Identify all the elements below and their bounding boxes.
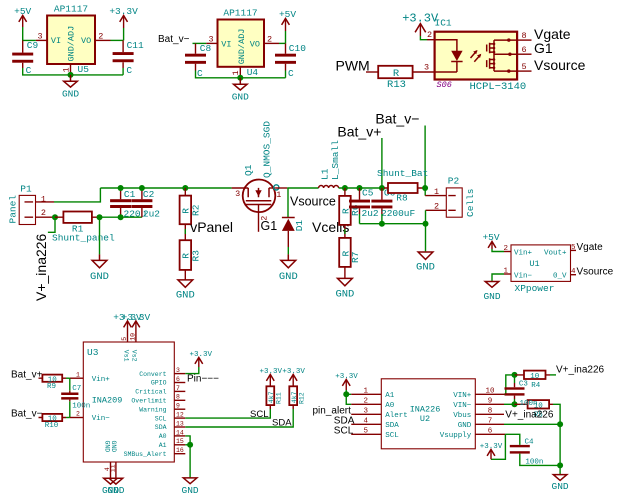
resistor R8 Shunt_Bat	[377, 168, 428, 204]
svg-text:2: 2	[76, 411, 80, 418]
pin 2 P1	[36, 208, 56, 218]
ground A0/A1	[182, 478, 199, 496]
pin 2 U1	[504, 245, 511, 253]
wire to label V+_ina226	[48, 217, 55, 232]
wire bottom rail right	[360, 223, 426, 225]
svg-text:2: 2	[98, 31, 103, 41]
optocoupler IC1 HCPL-3140	[435, 18, 518, 80]
junction R2 top	[182, 185, 188, 191]
svg-text:C8: C8	[200, 43, 212, 54]
pin 1 U5	[61, 64, 71, 75]
svg-text:VO: VO	[250, 39, 260, 49]
svg-text:V+_ina226: V+_ina226	[505, 410, 554, 421]
pin 3 IC1	[413, 62, 435, 72]
ground U5	[62, 75, 79, 100]
junction C6 top / Bat_v+	[379, 185, 385, 191]
pin 1 U1	[504, 267, 511, 275]
capacitor C5	[349, 188, 379, 224]
svg-text:GND: GND	[90, 271, 109, 283]
svg-text:5: 5	[121, 337, 128, 341]
svg-text:Vs2: Vs2	[130, 350, 137, 362]
resistor R3	[180, 240, 202, 280]
wire pin2 to +3.3V	[111, 39, 124, 41]
svg-text:GND: GND	[104, 441, 111, 453]
svg-text:2: 2	[434, 202, 439, 212]
svg-text:SDA: SDA	[272, 418, 292, 429]
svg-text:R10: R10	[45, 422, 59, 430]
pin 9 U3 (Warning)	[139, 403, 185, 414]
svg-text:Warning: Warning	[139, 406, 166, 413]
svg-text:3: 3	[364, 408, 369, 416]
wire Q1 to L1	[275, 187, 287, 189]
wire lower rail left	[100, 216, 142, 218]
svg-text:C2: C2	[143, 189, 155, 200]
svg-text:13: 13	[176, 420, 184, 427]
svg-text:Vsource: Vsource	[534, 57, 586, 73]
svg-text:3: 3	[424, 62, 429, 72]
svg-text:4: 4	[571, 268, 576, 276]
svg-text:Panel: Panel	[7, 195, 18, 224]
wire R6-R7 with Vcells tick	[344, 225, 346, 238]
pin 4 U2 (SDA)	[351, 418, 399, 430]
svg-text:SDA: SDA	[385, 422, 399, 430]
svg-text:INA226: INA226	[410, 405, 441, 415]
svg-text:1: 1	[41, 194, 46, 204]
junction R8 right	[422, 185, 428, 191]
svg-text:6: 6	[521, 45, 526, 55]
junction +3.3V A1	[343, 391, 349, 397]
svg-text:L1: L1	[319, 168, 330, 180]
svg-text:Cells: Cells	[465, 188, 476, 217]
resistor R5	[515, 400, 554, 420]
wire junction to P2 pin1	[424, 188, 426, 196]
svg-text:U1: U1	[529, 259, 539, 269]
svg-text:2: 2	[364, 398, 369, 406]
svg-text:6: 6	[176, 376, 180, 383]
pin 8 IC1	[517, 31, 531, 41]
svg-text:0_V: 0_V	[553, 272, 567, 280]
svg-text:R4: R4	[531, 382, 541, 390]
svg-text:3: 3	[176, 367, 180, 374]
pin 1 U2 (A1)	[351, 388, 395, 400]
svg-text:3: 3	[37, 31, 42, 41]
svg-text:R13: R13	[387, 79, 406, 91]
connector P2	[446, 176, 476, 218]
ground R7	[335, 278, 354, 300]
wire pin2 U4 to +5V	[279, 42, 286, 44]
svg-text:PWM: PWM	[336, 58, 370, 74]
resistor R9	[39, 375, 67, 391]
svg-text:U4: U4	[247, 67, 259, 78]
svg-text:R2: R2	[190, 204, 201, 216]
wire Bat_v+ down	[381, 138, 383, 188]
svg-text:U2: U2	[420, 414, 430, 424]
svg-text:3: 3	[208, 34, 213, 44]
pin 3 U4	[206, 34, 217, 44]
pin 8 U2 (Vbus)	[453, 408, 504, 420]
svg-text:Bat_v−: Bat_v−	[11, 409, 43, 420]
wire R5 down to gnd net	[553, 404, 560, 424]
svg-text:11: 11	[110, 464, 117, 472]
junction A1	[187, 442, 193, 448]
wire VIN- to R5	[504, 403, 515, 405]
svg-text:R3: R3	[190, 250, 201, 262]
svg-text:R12: R12	[298, 392, 305, 404]
svg-text:2: 2	[41, 208, 46, 218]
wire Vsupply to C4	[505, 434, 519, 445]
wire C8 to gnd rail	[196, 71, 286, 78]
svg-text:G1: G1	[261, 219, 278, 233]
wire top rail	[100, 187, 231, 189]
svg-text:1: 1	[364, 388, 369, 396]
svg-text:15: 15	[176, 438, 184, 445]
junction R1 left	[52, 214, 58, 220]
pin 13 U3 (SDA)	[155, 420, 186, 431]
resistor R4	[515, 371, 551, 390]
svg-text:5: 5	[571, 244, 576, 252]
svg-text:Q_NMOS_SGD: Q_NMOS_SGD	[262, 121, 273, 178]
power +3.3V (R11)	[259, 368, 282, 381]
svg-text:GND: GND	[232, 91, 249, 102]
pin 12 U3 (SCL)	[155, 412, 186, 423]
resistor R1	[52, 212, 115, 244]
svg-text:IC1: IC1	[435, 18, 452, 29]
ground R3	[176, 280, 195, 302]
connector P1	[7, 184, 35, 225]
resistor R2	[180, 188, 202, 224]
svg-text:4k7: 4k7	[268, 391, 275, 403]
svg-text:GND: GND	[483, 291, 500, 302]
svg-text:VI: VI	[51, 36, 61, 46]
junction C3/VIN-	[512, 401, 518, 407]
svg-text:Vsource: Vsource	[577, 266, 614, 277]
svg-text:C3: C3	[519, 380, 529, 388]
wire R4 to label	[550, 374, 556, 376]
svg-text:2: 2	[504, 245, 509, 253]
svg-text:XPpower: XPpower	[515, 283, 555, 294]
capacitor C7	[61, 378, 90, 417]
svg-text:+3.3V: +3.3V	[190, 351, 213, 359]
svg-text:Bat_v−: Bat_v−	[375, 111, 419, 127]
svg-text:vPanel: vPanel	[190, 219, 233, 235]
svg-text:P2: P2	[448, 176, 460, 187]
pin 2 U5	[95, 31, 111, 41]
svg-text:SCL: SCL	[155, 415, 167, 422]
power +3.3V (U3 Vs2)	[122, 312, 151, 328]
ground P2	[416, 252, 435, 274]
pin 8 U3 (Overlimit)	[131, 394, 185, 405]
svg-text:C9: C9	[27, 40, 39, 51]
wire SDA run	[185, 409, 293, 427]
svg-text:Vsource: Vsource	[290, 195, 336, 209]
svg-text:+5V: +5V	[279, 9, 296, 20]
ground D1	[279, 254, 298, 283]
output driver stage inside IC1	[487, 38, 517, 72]
svg-text:SCL: SCL	[250, 409, 268, 420]
pin 10 U3 (Vs2)	[130, 321, 138, 361]
junction C5 top	[357, 185, 363, 191]
pin 3 U5	[36, 31, 47, 41]
capacitor C1	[110, 188, 146, 220]
junction rail / P2 pin2	[423, 221, 429, 227]
pin 1 P1	[36, 194, 55, 204]
resistor R6	[339, 188, 361, 225]
svg-text:GND: GND	[107, 485, 124, 496]
svg-text:Critical: Critical	[135, 389, 166, 396]
svg-text:Vs1: Vs1	[122, 350, 129, 362]
svg-text:VO: VO	[81, 36, 91, 46]
wire D1 to ground	[287, 231, 289, 247]
svg-text:2200uF: 2200uF	[381, 208, 416, 219]
svg-text:3: 3	[235, 189, 240, 199]
svg-text:1: 1	[76, 371, 80, 378]
resistor R7	[339, 238, 361, 278]
svg-text:4: 4	[364, 418, 369, 426]
svg-text:1: 1	[231, 70, 241, 75]
svg-text:1: 1	[276, 190, 281, 200]
pullup resistor R12	[289, 375, 305, 409]
svg-text:9: 9	[176, 403, 180, 410]
svg-text:R9: R9	[47, 383, 56, 391]
ground U1	[483, 282, 500, 302]
capacitor C6	[371, 188, 415, 224]
svg-text:C7: C7	[72, 385, 81, 393]
wire A0 to gnd	[185, 436, 190, 478]
svg-text:A0: A0	[385, 402, 395, 410]
power +3.3V (Vsupply)	[480, 443, 503, 460]
capacitor C2	[131, 188, 160, 220]
svg-text:GND: GND	[110, 441, 117, 453]
pin 4 U1	[571, 268, 577, 276]
wire P1 pin1 to top rail	[54, 188, 100, 202]
svg-text:VIN−: VIN−	[453, 402, 472, 410]
resistor R10	[39, 414, 67, 430]
svg-text:5: 5	[521, 62, 526, 72]
svg-text:Overlimit: Overlimit	[131, 398, 166, 405]
svg-text:A0: A0	[159, 433, 167, 440]
ground U3 pin11	[107, 478, 124, 496]
svg-text:R7: R7	[350, 252, 361, 263]
junction C1 top	[118, 185, 124, 191]
svg-text:U3: U3	[87, 347, 99, 358]
svg-text:V+_ina226: V+_ina226	[33, 233, 49, 301]
svg-text:GND: GND	[335, 288, 354, 300]
svg-text:P1: P1	[20, 184, 32, 195]
svg-text:U5: U5	[78, 64, 90, 75]
svg-text:+5V: +5V	[482, 232, 499, 243]
ground U3 pin4	[102, 478, 119, 496]
wire VIN+ up to R4	[504, 375, 515, 394]
pin 6 IC1	[517, 45, 531, 55]
ground (panel caps)	[90, 254, 109, 283]
svg-text:Vsupply: Vsupply	[440, 432, 472, 440]
pin 5 IC1	[517, 62, 531, 72]
pin 16 U3 (SMBus_Alert)	[124, 447, 186, 458]
svg-text:A1: A1	[385, 392, 395, 400]
svg-text:A1: A1	[159, 442, 167, 449]
pin 2 P2	[426, 202, 447, 212]
wire Vsource branch	[287, 188, 289, 217]
svg-text:9: 9	[488, 398, 493, 406]
power +5V (U4 output)	[279, 9, 296, 43]
svg-text:R8: R8	[396, 193, 408, 204]
svg-text:HCPL−3140: HCPL−3140	[470, 81, 527, 93]
wire R1 to ground	[99, 217, 101, 254]
svg-text:7: 7	[176, 385, 180, 392]
svg-text:GPIO: GPIO	[151, 380, 167, 387]
svg-text:100n: 100n	[520, 400, 538, 408]
current monitor U2 INA226	[381, 379, 475, 449]
svg-text:S06: S06	[437, 80, 452, 90]
wire L1 to R8	[339, 187, 384, 189]
svg-text:L_Small: L_Small	[330, 140, 341, 180]
svg-text:C: C	[288, 68, 294, 79]
pin 10 U2 (VIN+)	[453, 388, 504, 400]
pin 2 U3	[70, 411, 110, 424]
svg-text:Bat_v−: Bat_v−	[158, 34, 190, 45]
svg-text:Shunt_Bat: Shunt_Bat	[377, 168, 428, 179]
svg-text:Vout+: Vout+	[544, 249, 567, 257]
svg-text:14: 14	[176, 429, 184, 436]
capacitor C8	[185, 43, 212, 79]
regulator U5 AP1117	[47, 4, 95, 76]
svg-text:Pin−−−: Pin−−−	[187, 374, 219, 385]
power +3.3V (IC1)	[402, 11, 439, 39]
svg-text:AP1117: AP1117	[223, 8, 257, 19]
wire +3.3V to A1/A0	[346, 394, 351, 404]
svg-text:VI: VI	[221, 39, 231, 49]
power +3.3V (Convert)	[190, 351, 213, 367]
pin 5 U3 (Vs1)	[121, 321, 129, 361]
svg-text:Shunt_panel: Shunt_panel	[52, 233, 115, 244]
capacitor C3	[505, 375, 529, 404]
svg-text:GND: GND	[416, 262, 435, 274]
wire SCL run	[185, 409, 270, 418]
resistor R13	[378, 66, 412, 91]
svg-text:R: R	[393, 68, 400, 80]
svg-text:1: 1	[61, 67, 71, 72]
ground U2	[552, 465, 569, 491]
svg-text:D1: D1	[294, 220, 305, 232]
capacitor C9	[12, 40, 38, 76]
svg-text:C10: C10	[289, 43, 306, 54]
pin 15 U3 (A1)	[159, 438, 186, 449]
pin 7 U2 (GND)	[458, 418, 504, 430]
pin 3 U2 (Alert)	[351, 408, 408, 420]
svg-text:SCL: SCL	[334, 425, 354, 436]
svg-text:R11: R11	[275, 392, 282, 404]
junction R6 top	[342, 185, 348, 191]
dc-dc module U1 XPpower	[511, 245, 571, 294]
svg-text:7: 7	[488, 418, 493, 426]
pin 9 U2 (VIN-)	[453, 398, 504, 410]
svg-text:SDA: SDA	[155, 424, 167, 431]
junction R1 right	[97, 214, 103, 220]
junction C2 top	[139, 185, 145, 191]
wire A1 to gnd	[185, 444, 190, 446]
svg-text:C1: C1	[124, 189, 136, 200]
svg-text:8: 8	[521, 31, 526, 41]
pin 5 U2 (SCL)	[351, 428, 399, 440]
svg-text:10: 10	[130, 333, 137, 341]
pin 1 U3	[70, 371, 110, 384]
power +3.3V (U3 Vs1)	[113, 312, 142, 328]
svg-text:GND: GND	[458, 422, 472, 430]
wire PWM to R13	[366, 71, 378, 73]
wire gnd vertical	[559, 424, 561, 465]
pin 5 U1	[571, 244, 577, 252]
svg-text:6: 6	[488, 428, 493, 436]
pin 7 U3 (Critical)	[135, 385, 185, 396]
wire +5V to VI pin	[23, 27, 36, 40]
pin 1 P2	[425, 187, 446, 197]
pin 6 U3 (GPIO)	[151, 376, 185, 387]
svg-text:GND: GND	[182, 485, 199, 496]
svg-text:C11: C11	[127, 40, 144, 51]
svg-text:Convert: Convert	[139, 371, 166, 378]
svg-text:C5: C5	[362, 188, 374, 199]
ground U4	[232, 78, 249, 103]
junction U4 gnd	[237, 75, 243, 81]
svg-text:SCL: SCL	[385, 432, 399, 440]
inductor L1	[319, 140, 341, 188]
power +3.3V (R12)	[282, 368, 305, 381]
svg-text:4k7: 4k7	[291, 391, 298, 403]
svg-text:GND: GND	[62, 89, 79, 100]
junction gnd rail	[557, 462, 563, 468]
svg-text:GND: GND	[552, 481, 569, 492]
wire R10 to pin2	[66, 417, 70, 419]
svg-text:2u2: 2u2	[143, 209, 160, 220]
svg-text:Vin+: Vin+	[92, 376, 111, 384]
svg-text:1: 1	[504, 267, 509, 275]
wire GND pin7	[504, 423, 560, 425]
pin 1 U4	[231, 67, 241, 78]
junction R4/C3	[512, 372, 518, 378]
current monitor U3 INA209	[83, 342, 174, 462]
wire U1 pin1 to ground	[492, 274, 504, 282]
power +3.3V (U5 output)	[109, 6, 138, 40]
junction pin7	[557, 421, 563, 427]
pin 2 Q1 (gate lead)	[259, 205, 270, 232]
power +3.3V (U2 left)	[335, 373, 358, 395]
svg-text:Vgate: Vgate	[577, 242, 604, 253]
transistor Q1	[232, 121, 279, 212]
capacitor C10	[275, 43, 306, 79]
svg-text:GND: GND	[176, 290, 195, 302]
pin 14 U3 (A0)	[159, 429, 186, 440]
svg-text:C: C	[126, 65, 132, 76]
wire C9 to gnd rail	[23, 68, 123, 75]
wire R9 to pin1	[66, 377, 70, 379]
svg-text:2: 2	[267, 34, 272, 44]
wire rail to ground	[425, 224, 427, 252]
pin 2 IC1	[427, 30, 435, 40]
svg-text:Bat_v+: Bat_v+	[11, 369, 43, 380]
wire Bat_v- to VI pin	[193, 42, 207, 44]
svg-text:GND/ADJ: GND/ADJ	[67, 26, 77, 62]
svg-text:VIN+: VIN+	[453, 392, 472, 400]
wire Bat_v- down	[424, 126, 426, 189]
svg-text:10: 10	[485, 388, 495, 396]
diode D1 zener	[282, 218, 305, 232]
svg-text:2: 2	[427, 30, 432, 40]
wire Convert to +3.3V	[185, 367, 199, 374]
svg-text:G1: G1	[534, 40, 553, 56]
junction C1 bottom	[118, 214, 124, 220]
svg-text:Alert: Alert	[385, 412, 408, 420]
capacitor C11	[113, 40, 144, 76]
